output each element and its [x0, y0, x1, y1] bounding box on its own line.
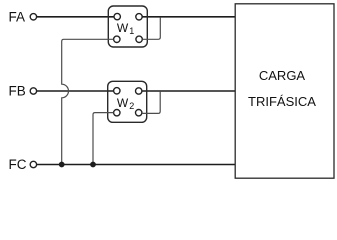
wire FA to W1	[37, 16, 114, 18]
wire W1 voltage jumper	[142, 18, 160, 40]
svg-text:FB: FB	[9, 84, 26, 99]
svg-text:FA: FA	[9, 9, 26, 24]
svg-text:FC: FC	[9, 157, 27, 172]
node FA terminal	[30, 14, 36, 20]
W1 pin top-left	[114, 13, 120, 19]
wire W1 bottom-left to FC (with hop over FB)	[62, 39, 114, 164]
svg-text:W: W	[117, 21, 129, 35]
wire W2 to load	[142, 90, 236, 92]
svg-text:1: 1	[129, 26, 134, 36]
svg-text:TRIFÁSICA: TRIFÁSICA	[248, 94, 316, 109]
W2 pin bottom-left	[114, 110, 120, 116]
wattmeter W1 box	[108, 6, 147, 47]
junction dot W1-FC	[59, 162, 65, 168]
wire W2 voltage jumper	[142, 92, 160, 114]
wire FB to W2	[37, 90, 114, 92]
wire W2 bottom-left to FC	[93, 113, 114, 165]
W1 pin top-right	[136, 14, 142, 20]
node FC terminal	[30, 161, 36, 167]
junction dot W2-FC	[90, 162, 96, 168]
wattmeter W2 box	[108, 81, 147, 122]
svg-text:CARGA: CARGA	[259, 68, 306, 83]
wire W1 to load	[142, 16, 235, 18]
svg-text:2: 2	[129, 101, 134, 111]
svg-text:W: W	[117, 96, 129, 110]
W1 pin bottom-left	[114, 36, 120, 42]
W1 pin bottom-right	[136, 36, 142, 42]
W2 pin top-left	[114, 88, 120, 94]
node FB terminal	[30, 88, 36, 94]
wire FC to load	[37, 164, 236, 166]
W2 pin top-right	[136, 88, 142, 94]
load box CARGA TRIFASICA	[235, 4, 334, 178]
W2 pin bottom-right	[136, 110, 142, 116]
